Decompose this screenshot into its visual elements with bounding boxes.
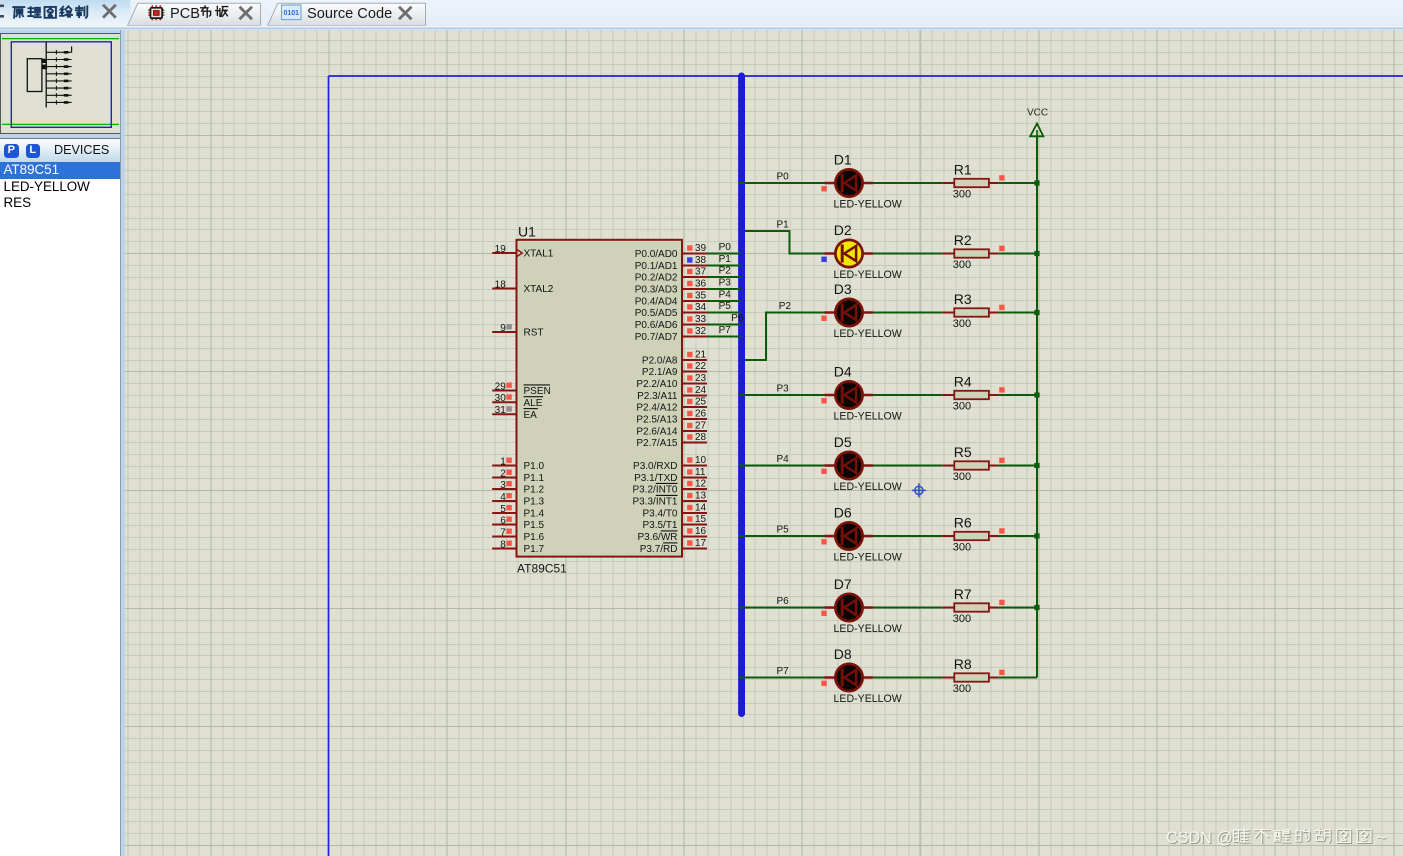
svg-text:9: 9 xyxy=(500,323,506,334)
svg-text:LED-YELLOW: LED-YELLOW xyxy=(833,552,901,564)
svg-text:CSDN @: CSDN @ xyxy=(1166,829,1233,847)
svg-text:22: 22 xyxy=(695,361,707,372)
svg-text:P1.5: P1.5 xyxy=(523,520,544,531)
svg-text:R4: R4 xyxy=(953,373,971,389)
svg-text:P3.7/RD: P3.7/RD xyxy=(639,544,677,555)
svg-text:D2: D2 xyxy=(833,222,851,238)
svg-text:P3: P3 xyxy=(718,278,731,289)
svg-text:P2.1/A9: P2.1/A9 xyxy=(641,367,677,378)
svg-text:P5: P5 xyxy=(776,525,789,536)
svg-text:P3.3/INT1: P3.3/INT1 xyxy=(632,497,677,508)
svg-text:D7: D7 xyxy=(833,576,851,592)
svg-text:~: ~ xyxy=(1376,829,1385,847)
svg-text:P0: P0 xyxy=(776,172,789,183)
svg-text:P2: P2 xyxy=(718,266,731,277)
svg-text:15: 15 xyxy=(695,514,707,525)
svg-text:2: 2 xyxy=(500,468,506,479)
svg-text:37: 37 xyxy=(695,267,707,278)
svg-text:300: 300 xyxy=(952,318,970,330)
svg-text:34: 34 xyxy=(695,302,707,313)
svg-text:LED-YELLOW: LED-YELLOW xyxy=(833,481,901,493)
svg-text:P1.0: P1.0 xyxy=(523,461,544,472)
svg-text:35: 35 xyxy=(695,291,707,302)
svg-text:6: 6 xyxy=(500,515,506,526)
svg-text:LED-YELLOW: LED-YELLOW xyxy=(833,411,901,423)
svg-text:D5: D5 xyxy=(833,434,851,450)
svg-text:R6: R6 xyxy=(953,514,971,530)
svg-text:P0.7/AD7: P0.7/AD7 xyxy=(634,332,677,343)
svg-text:EA: EA xyxy=(523,410,537,421)
svg-text:P3.2/INT0: P3.2/INT0 xyxy=(632,485,677,496)
svg-text:R3: R3 xyxy=(953,291,971,307)
svg-text:P1.1: P1.1 xyxy=(523,473,544,484)
svg-text:300: 300 xyxy=(952,542,970,554)
svg-text:LED-YELLOW: LED-YELLOW xyxy=(833,328,901,340)
svg-text:VCC: VCC xyxy=(1027,108,1048,119)
svg-text:36: 36 xyxy=(695,279,707,290)
svg-text:P1.7: P1.7 xyxy=(523,544,544,555)
svg-text:R7: R7 xyxy=(953,586,971,602)
svg-text:P5: P5 xyxy=(718,301,731,312)
svg-text:P0.3/AD3: P0.3/AD3 xyxy=(634,285,677,296)
svg-text:P7: P7 xyxy=(776,666,789,677)
svg-text:25: 25 xyxy=(695,397,707,408)
svg-text:14: 14 xyxy=(695,503,707,514)
svg-text:P1.3: P1.3 xyxy=(523,497,544,508)
svg-text:PCB: PCB xyxy=(170,6,200,22)
svg-text:10: 10 xyxy=(695,455,707,466)
svg-text:31: 31 xyxy=(494,405,506,416)
svg-text:P2.0/A8: P2.0/A8 xyxy=(641,356,677,367)
svg-text:13: 13 xyxy=(695,491,707,502)
svg-text:AT89C51: AT89C51 xyxy=(517,562,567,576)
svg-text:18: 18 xyxy=(494,279,506,290)
svg-text:P6: P6 xyxy=(776,596,789,607)
svg-text:P2.4/A12: P2.4/A12 xyxy=(636,403,678,414)
svg-text:XTAL1: XTAL1 xyxy=(523,249,553,260)
svg-text:P1: P1 xyxy=(776,220,789,231)
svg-text:P0.6/AD6: P0.6/AD6 xyxy=(634,320,677,331)
svg-text:P0.1/AD1: P0.1/AD1 xyxy=(634,261,677,272)
svg-text:P4: P4 xyxy=(776,454,789,465)
svg-text:300: 300 xyxy=(952,401,970,413)
svg-text:ALE: ALE xyxy=(523,398,542,409)
svg-text:P0: P0 xyxy=(718,242,731,253)
svg-text:P2.3/A11: P2.3/A11 xyxy=(637,391,678,402)
svg-text:P3.0/RXD: P3.0/RXD xyxy=(633,461,677,472)
svg-text:D6: D6 xyxy=(833,504,851,520)
svg-text:P7: P7 xyxy=(718,325,731,336)
svg-text:300: 300 xyxy=(952,683,970,695)
svg-text:P0.0/AD0: P0.0/AD0 xyxy=(634,249,677,260)
svg-text:RST: RST xyxy=(523,328,543,339)
svg-text:R2: R2 xyxy=(953,232,971,248)
svg-text:P1: P1 xyxy=(718,254,731,265)
svg-text:D1: D1 xyxy=(833,151,851,167)
svg-text:P0.5/AD5: P0.5/AD5 xyxy=(634,308,677,319)
svg-text:P4: P4 xyxy=(718,290,731,301)
svg-text:24: 24 xyxy=(695,385,707,396)
svg-text:33: 33 xyxy=(695,314,707,325)
svg-text:P3.5/T1: P3.5/T1 xyxy=(642,520,677,531)
svg-text:PSEN: PSEN xyxy=(523,386,550,397)
svg-text:300: 300 xyxy=(952,259,970,271)
svg-text:P2.5/A13: P2.5/A13 xyxy=(636,415,678,426)
svg-text:XTAL2: XTAL2 xyxy=(523,284,553,295)
svg-text:LED-YELLOW: LED-YELLOW xyxy=(833,269,901,281)
svg-text:38: 38 xyxy=(695,255,707,266)
svg-text:P2: P2 xyxy=(778,301,791,312)
svg-text:23: 23 xyxy=(695,373,707,384)
svg-text:P2.7/A15: P2.7/A15 xyxy=(636,438,678,449)
svg-text:P1.6: P1.6 xyxy=(523,532,544,543)
svg-text:P2.6/A14: P2.6/A14 xyxy=(636,427,678,438)
svg-text:7: 7 xyxy=(500,527,506,538)
svg-text:29: 29 xyxy=(494,381,506,392)
svg-text:16: 16 xyxy=(695,526,707,537)
svg-text:P0.4/AD4: P0.4/AD4 xyxy=(634,297,677,308)
svg-text:4: 4 xyxy=(500,492,506,503)
svg-text:P1.4: P1.4 xyxy=(523,509,544,520)
svg-text:Source Code: Source Code xyxy=(307,6,392,22)
svg-text:3: 3 xyxy=(500,480,506,491)
svg-text:17: 17 xyxy=(695,538,707,549)
svg-text:300: 300 xyxy=(952,189,970,201)
svg-text:27: 27 xyxy=(695,421,707,432)
svg-text:8: 8 xyxy=(500,539,506,550)
svg-text:30: 30 xyxy=(494,393,506,404)
svg-text:P2.2/A10: P2.2/A10 xyxy=(636,379,678,390)
svg-text:26: 26 xyxy=(695,409,707,420)
svg-text:28: 28 xyxy=(695,432,707,443)
svg-text:1: 1 xyxy=(500,456,506,467)
svg-text:U1: U1 xyxy=(518,224,536,240)
svg-text:P3.4/T0: P3.4/T0 xyxy=(642,509,677,520)
svg-text:32: 32 xyxy=(695,326,707,337)
svg-text:R5: R5 xyxy=(953,444,971,460)
svg-text:5: 5 xyxy=(500,504,506,515)
svg-text:0101: 0101 xyxy=(284,10,300,17)
svg-text:39: 39 xyxy=(695,243,707,254)
svg-text:D8: D8 xyxy=(833,646,851,662)
svg-text:P1.2: P1.2 xyxy=(523,485,544,496)
svg-text:LED-YELLOW: LED-YELLOW xyxy=(833,623,901,635)
svg-text:P3.6/WR: P3.6/WR xyxy=(637,532,677,543)
svg-text:11: 11 xyxy=(695,467,706,478)
svg-text:LED-YELLOW: LED-YELLOW xyxy=(833,199,901,211)
svg-text:300: 300 xyxy=(952,613,970,625)
svg-text:R8: R8 xyxy=(953,656,971,672)
svg-text:21: 21 xyxy=(695,350,707,361)
svg-text:P3: P3 xyxy=(776,384,789,395)
svg-text:P0.2/AD2: P0.2/AD2 xyxy=(634,273,677,284)
svg-text:300: 300 xyxy=(952,471,970,483)
svg-text:R1: R1 xyxy=(953,161,971,177)
svg-text:19: 19 xyxy=(494,244,506,255)
svg-text:P6: P6 xyxy=(731,313,744,324)
svg-text:D3: D3 xyxy=(833,281,851,297)
svg-text:LED-YELLOW: LED-YELLOW xyxy=(833,693,901,705)
svg-text:P3.1/TXD: P3.1/TXD xyxy=(634,473,677,484)
svg-text:D4: D4 xyxy=(833,363,851,379)
svg-text:12: 12 xyxy=(695,479,707,490)
